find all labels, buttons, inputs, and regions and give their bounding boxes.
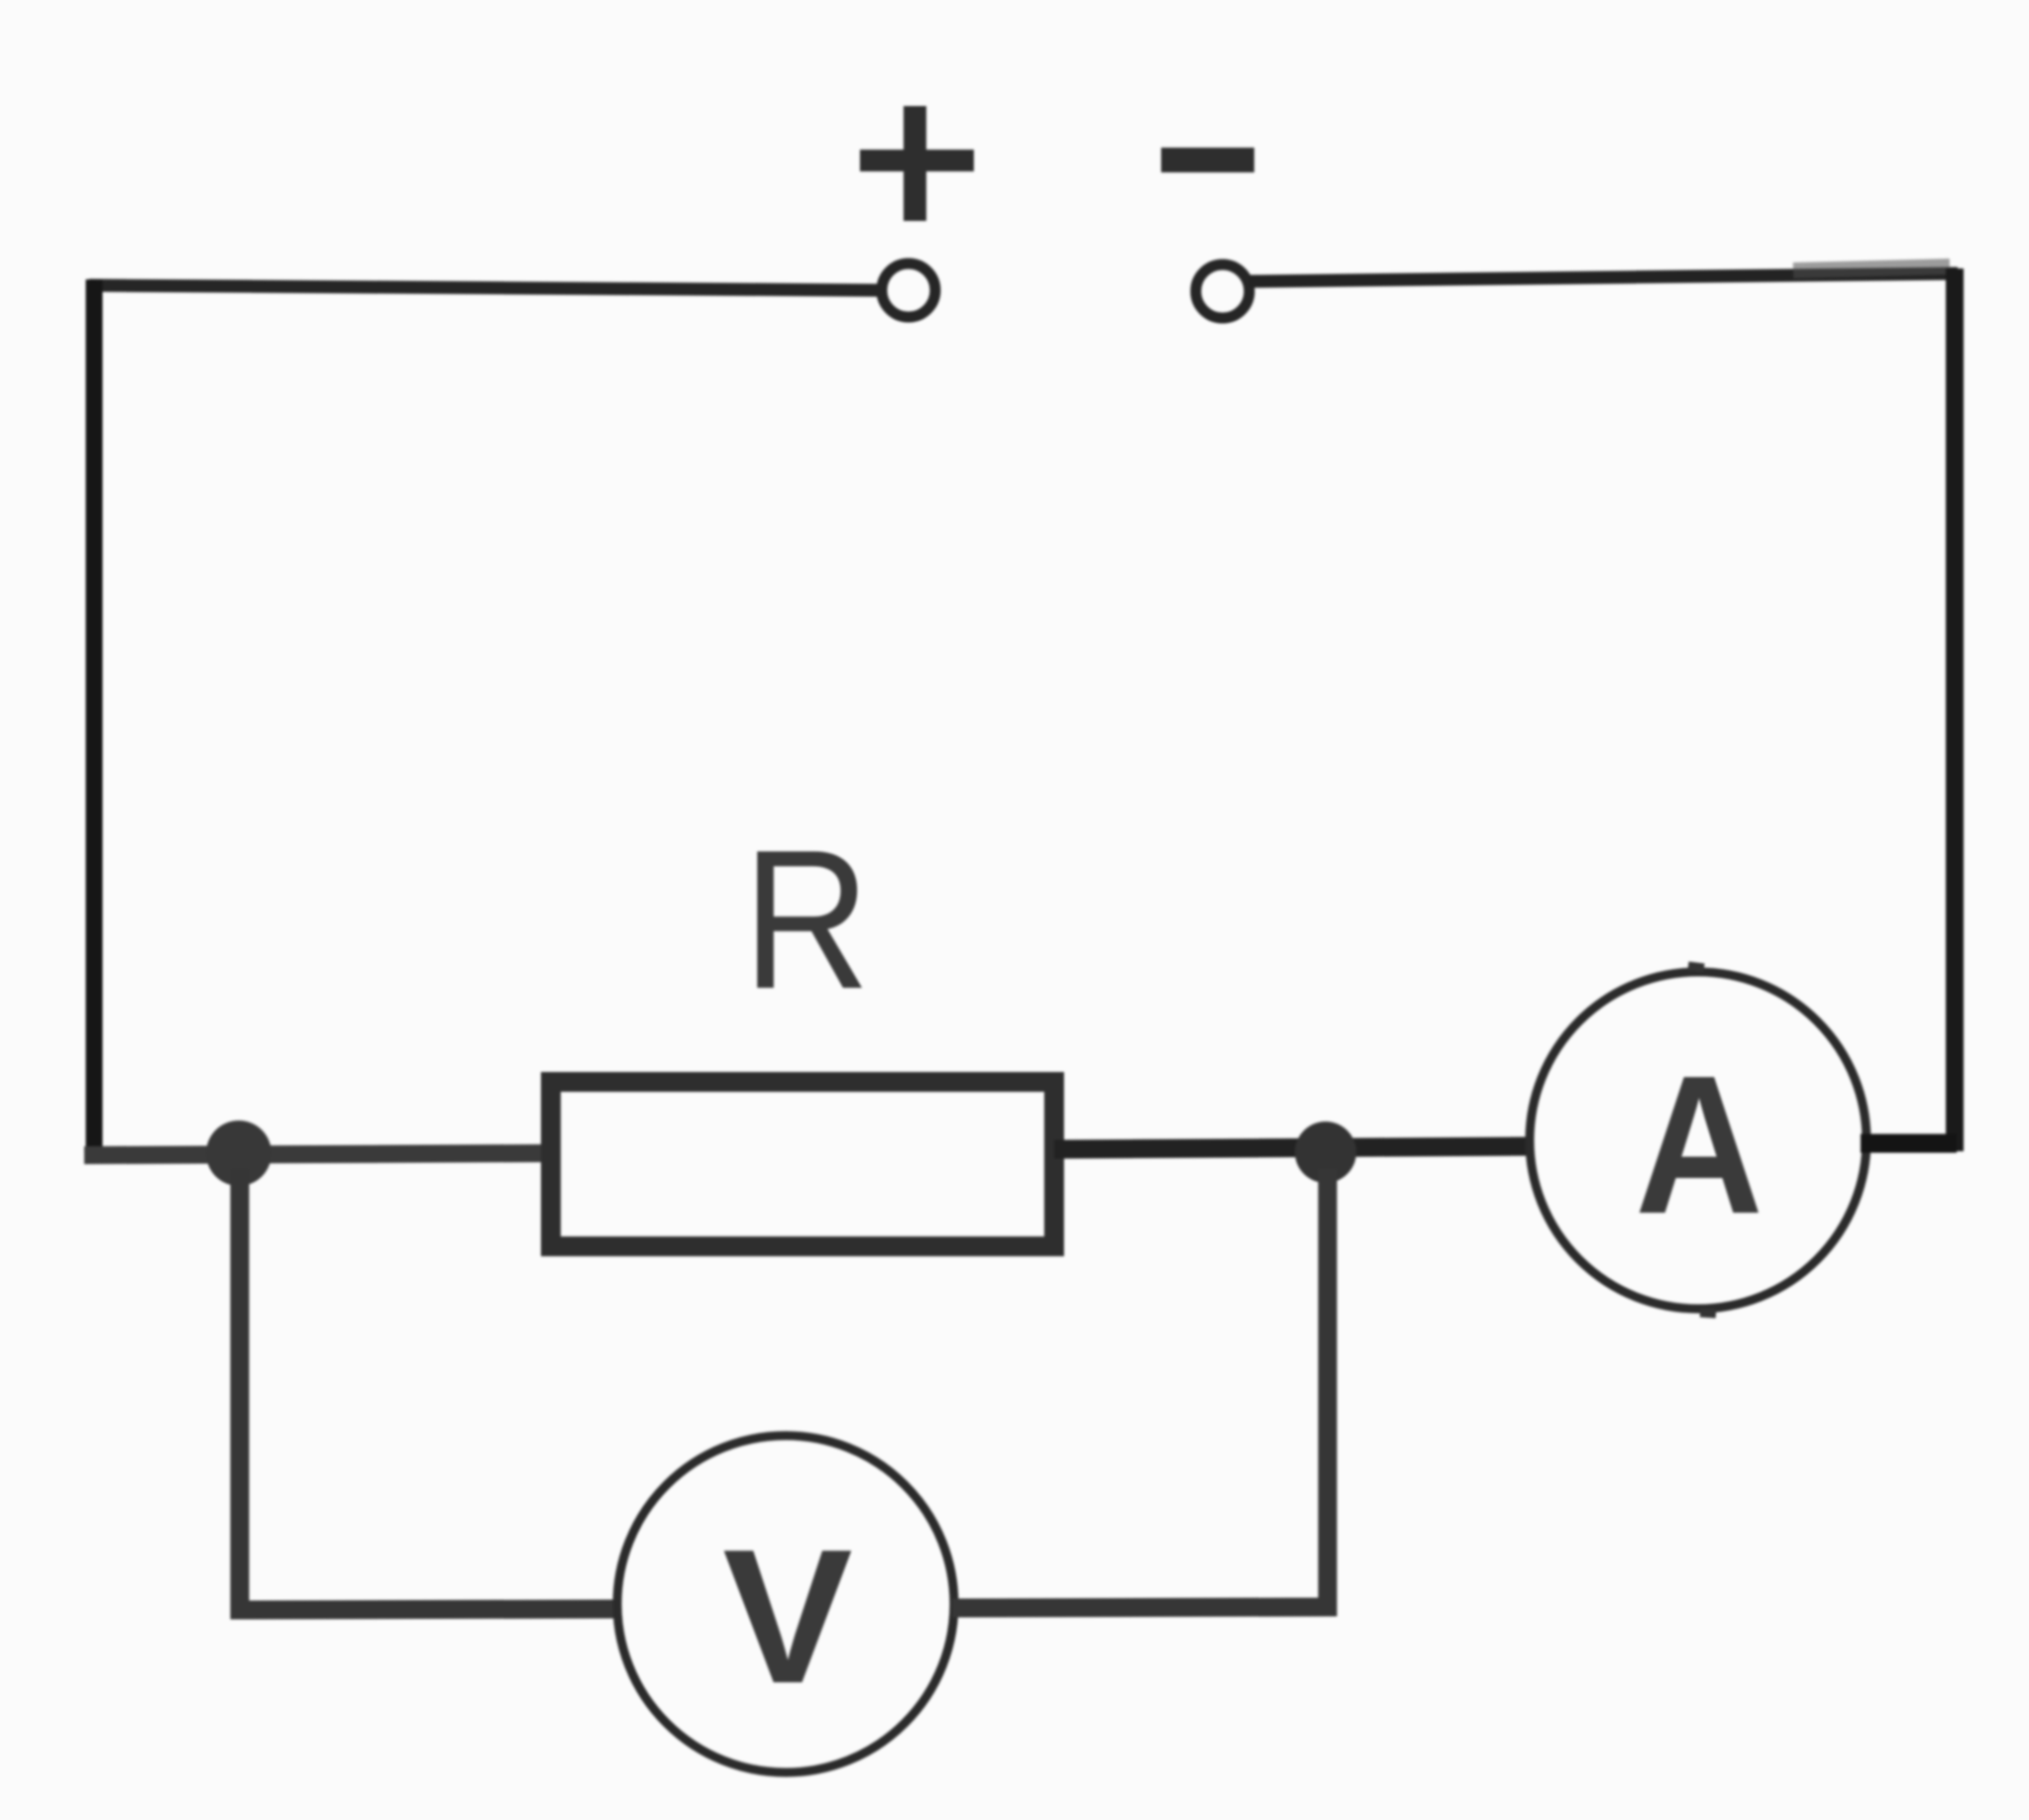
svg-text:A: A (1635, 1035, 1762, 1255)
svg-text:V: V (722, 1511, 852, 1724)
node junction J2 (1295, 1122, 1356, 1183)
label R (743, 809, 871, 1030)
label − (negative sign) (1161, 148, 1254, 172)
wire top-right horizontal (battery − lead) (1249, 273, 1958, 281)
terminal + (battery positive, open circle) (882, 264, 935, 317)
wire top-right shading artifact (1793, 267, 1950, 270)
svg-text:R: R (743, 809, 871, 1030)
wire J1 down and bottom-left (to voltmeter) (240, 1169, 619, 1610)
wire right vertical (1946, 268, 1964, 1151)
ammeter A (meter circle) (1530, 972, 1867, 1309)
wire middle-right (resistor to ammeter) (1054, 1146, 1534, 1149)
resistor R (rectangle body) (551, 1082, 1054, 1246)
node junction J1 (206, 1121, 271, 1186)
wire voltmeter to J2 (bottom-right and up) (952, 1169, 1328, 1608)
label + (positive sign) (860, 106, 974, 221)
wire middle-left (left rail to resistor) (84, 1153, 544, 1155)
terminal − (battery negative, open circle) (1196, 265, 1249, 318)
label V (voltmeter letter) (722, 1511, 852, 1724)
voltmeter V (meter circle) (617, 1436, 954, 1772)
ammeter top tick artifact (1688, 966, 1704, 968)
ammeter bottom tick artifact (1700, 1313, 1716, 1314)
wire left vertical (86, 279, 103, 1161)
wire top-left horizontal (battery + lead) (89, 285, 880, 290)
wire ammeter to right rail (1861, 1134, 1957, 1153)
label A (ammeter letter) (1635, 1035, 1762, 1255)
